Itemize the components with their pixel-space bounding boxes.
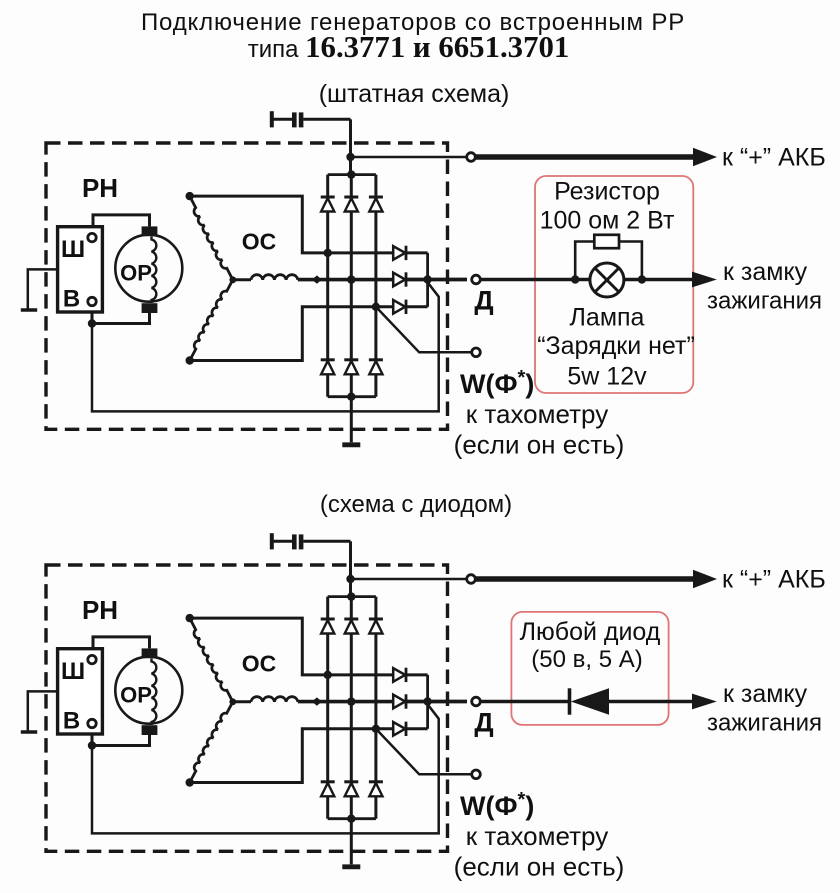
bridge bottom bar A [328,395,376,398]
junction phase1 V1 A [324,249,332,257]
rotor brush top B [142,648,158,658]
rotor circle B [115,657,182,724]
capacitor plate 2 B [299,534,304,549]
wire top brush to Sh A [93,215,150,233]
diode top VD1 B [321,618,335,621]
aux diode D3 A [393,300,405,314]
svg-text:Д: Д [474,708,493,738]
dashed alternator housing box B [46,565,448,851]
svg-text:ОС: ОС [242,229,277,255]
capacitor plate 2 A [299,112,304,127]
capacitor lead right A [303,118,350,121]
wire aux bar to B B [92,704,439,833]
junction bridge top A [347,170,355,178]
voltage regulator box A [58,227,103,312]
wire regulator case ground B [28,691,58,730]
diode top VD2 A [344,196,358,199]
junction bridge bottom B [347,815,355,823]
wire stator phase 1 A [190,196,395,253]
wire bottom brush to B A [92,313,150,324]
terminal Sh B [88,655,96,663]
wire bridge to ground B [350,819,353,865]
stator winding upper B [190,618,233,702]
stator bottom end node B [186,778,194,786]
wire star to coil A [233,278,251,281]
svg-text:РН: РН [82,595,118,625]
resistor R1 [594,235,619,248]
svg-text:к тахометру: к тахометру [466,399,608,429]
svg-text:5w 12v: 5w 12v [567,363,647,391]
junction bridge bottom A [347,393,355,401]
terminal B reg A [88,297,96,305]
arrow to battery A [693,148,717,166]
junction aux bar B [423,697,431,705]
svg-text:зажигания: зажигания [707,710,822,737]
wire W tap B [376,729,471,775]
diode bottom VD4 A [321,358,335,361]
terminal plus B [467,575,476,584]
red info box diode [511,612,668,725]
wire stator phase 2 A [298,278,394,282]
svg-text:Ш: Ш [61,236,85,263]
stator winding middle coil B [251,697,298,702]
svg-text:к тахометру: к тахометру [466,821,608,851]
wire plus rail A [351,156,468,159]
diode VD7 bar [568,688,572,714]
stator top end node A [186,192,194,200]
diode bottom VD6 B [369,780,383,783]
wire aux D3 out A [406,305,427,308]
terminal plus A [467,153,476,162]
junction bridge top B [347,592,355,600]
ground bridge A [342,442,360,447]
capacitor lead left A [272,118,292,121]
wire top brush to Sh B [93,637,150,655]
svg-text:к замку: к замку [723,680,808,708]
wire stator phase 3 B [190,729,395,783]
capacitor plate 1 A [292,112,297,127]
junction lamp left [571,275,579,283]
wire D output B [406,700,467,704]
bridge top bar A [328,173,376,176]
svg-text:100 ом 2 Вт: 100 ом 2 Вт [540,207,675,235]
svg-text:В: В [63,708,80,735]
wire resistor branch [575,242,594,280]
svg-text:(если он есть): (если он есть) [454,430,625,460]
capacitor lead right B [303,540,350,543]
wire D line to diode B [481,700,570,704]
stator winding lower A [190,280,233,361]
aux diode D1 A [393,246,405,260]
wire capacitor to bridge A [349,119,352,174]
svg-text:РН: РН [82,173,118,203]
stator top end node B [186,614,194,622]
diode top VD3 A [369,196,383,199]
svg-text:Ш: Ш [61,658,85,685]
diode bottom VD6 A [369,358,383,361]
diode VD7 [571,688,609,714]
junction phase3 V3 A [372,303,380,311]
svg-text:(50 в, 5 А): (50 в, 5 А) [531,646,642,673]
voltage regulator box B [58,649,103,734]
bridge phase line 3 A [374,175,377,397]
junction phase2 V2 B [347,697,355,705]
rotor brush top A [142,226,158,236]
junction phase1 V1 B [324,671,332,679]
wire D line to lamp A [481,278,590,282]
bridge phase line 2 A [350,175,353,397]
bridge bottom bar B [328,817,376,820]
stator star node B [229,698,236,705]
dashed alternator housing box A [46,143,448,429]
wire W tap A [376,307,471,353]
junction plus rail A [346,153,354,161]
svg-text:(штатная схема): (штатная схема) [319,80,510,108]
bridge phase line 1 A [326,175,329,397]
wire star to coil B [233,700,251,703]
junction lamp right [638,275,646,283]
svg-text:ОС: ОС [242,651,277,677]
wire stator phase 1 B [190,618,395,675]
terminal B reg B [88,719,96,727]
wire capacitor to bridge B [349,541,352,596]
svg-text:(если он есть): (если он есть) [454,852,625,882]
junction B wire B [88,741,96,749]
diode bottom VD5 A [344,358,358,361]
svg-text:Д: Д [474,286,493,316]
terminal D A [472,275,481,284]
capacitor lead left B [272,540,292,543]
capacitor plate 1 B [292,534,297,549]
svg-text:типа 16.3771 и 6651.3701: типа 16.3771 и 6651.3701 [248,30,570,64]
diode bottom VD4 B [321,780,335,783]
wire B terminal down B [91,728,94,746]
stator bottom end node A [186,356,194,364]
bridge phase line 1 B [326,597,329,819]
wire stator phase 2 B [298,700,394,704]
terminal W B [472,770,481,779]
diode bottom VD5 B [344,780,358,783]
stator winding upper A [190,196,233,280]
junction phase3 V3 B [372,725,380,733]
thick wire to battery A [476,154,694,160]
wire bottom brush to B B [92,735,150,746]
aux diode D1 B [393,668,405,682]
svg-text:к “+” АКБ: к “+” АКБ [722,566,826,594]
svg-text:ОР: ОР [120,683,152,708]
wire bridge to ground A [350,397,353,443]
wire lamp to arrow [624,278,693,282]
wire plus rail B [351,578,468,581]
wire aux D3 out B [406,727,427,730]
junction phase2 V2 A [347,275,355,283]
ground bridge B [342,864,360,869]
ground regulator case A [21,308,37,312]
rotor brush bottom B [142,725,158,735]
diode top VD1 A [321,196,335,199]
diode top VD3 B [369,618,383,621]
wire regulator case ground A [28,269,58,308]
junction aux bar A [423,275,431,283]
stator winding lower B [190,702,233,783]
rotor brush bottom A [142,303,158,313]
rotor circle A [115,235,182,302]
wire stator phase 3 A [190,307,395,361]
svg-text:к “+” АКБ: к “+” АКБ [722,144,826,172]
rotor field winding B [152,659,157,726]
terminal W A [472,348,481,357]
wire B terminal down A [91,306,94,324]
junction phase2 diamond A [312,275,322,283]
svg-text:(схема с диодом): (схема с диодом) [320,491,512,518]
wire aux D1 out B [406,673,427,676]
wire D output A [406,278,467,282]
ground regulator case B [21,730,37,734]
bridge phase line 2 B [350,597,353,819]
wire resistor to right branch [619,242,642,280]
stator winding middle coil A [251,275,298,280]
svg-text:зажигания: зажигания [707,288,822,315]
arrow to battery B [693,570,717,588]
thick wire to battery B [476,576,694,582]
svg-text:Резистор: Резистор [554,178,660,206]
svg-text:В: В [63,286,80,313]
red info box resistor-lamp [535,176,693,393]
terminal D B [472,697,481,706]
svg-text:Лампа: Лампа [570,304,645,332]
arrow to ignition A [692,272,717,288]
svg-text:ОР: ОР [120,261,152,286]
aux diode D2 B [393,695,405,709]
capacitor ground bar A [270,111,274,127]
wire diode to arrow [609,700,693,704]
terminal Sh A [88,233,96,241]
svg-text:“Зарядки нет”: “Зарядки нет” [537,332,695,360]
wire aux D1 out A [406,251,427,254]
stator star node A [229,276,236,283]
junction B wire A [88,319,96,327]
svg-text:Любой диод: Любой диод [520,618,661,646]
bridge top bar B [328,595,376,598]
aux diode D3 B [393,722,405,736]
rotor field winding A [152,237,157,304]
diode top VD2 B [344,618,358,621]
wire aux bar to B A [92,282,439,411]
junction phase2 diamond B [312,697,322,705]
svg-text:к замку: к замку [723,258,808,286]
aux output bar B [426,675,429,729]
aux diode D2 A [393,273,405,287]
lamp HL1 [590,263,624,297]
bridge phase line 3 B [374,597,377,819]
capacitor ground bar B [270,533,274,549]
junction plus rail B [346,575,354,583]
arrow to ignition B [692,694,717,710]
aux output bar A [426,253,429,307]
